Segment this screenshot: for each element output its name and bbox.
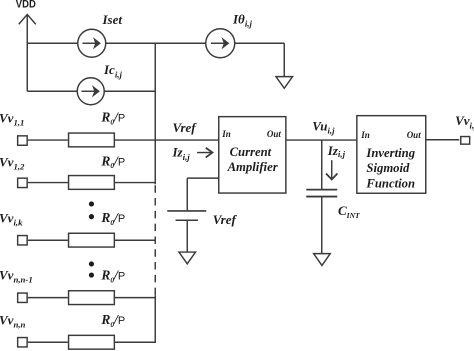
wire row1 left [28, 139, 68, 141]
svg-text:Out: Out [267, 129, 282, 139]
wire second rail y=91 [27, 90, 156, 92]
wire row2 left [28, 182, 68, 184]
VDD power symbol arrow [19, 14, 36, 91]
wire sigmoid output [426, 139, 460, 141]
vertical bus solid lower [154, 295, 156, 343]
wire row2 right [115, 182, 156, 184]
svg-text:Vref: Vref [173, 120, 198, 135]
input terminal square row4 [18, 293, 28, 302]
Iz annotation arrow (left) [197, 148, 212, 158]
svg-text:VDD: VDD [16, 0, 36, 10]
battery Vref [167, 211, 206, 252]
output terminal square [461, 137, 470, 145]
vertical bus solid upper [154, 43, 156, 184]
svg-text:Function: Function [365, 177, 415, 191]
input terminal square row5 [18, 338, 28, 347]
wire row5 left [28, 341, 68, 343]
input terminal square row1 [18, 136, 28, 145]
input terminal square row2 [18, 178, 28, 187]
current source Ic [77, 78, 104, 105]
resistor R0/P row4 [69, 291, 115, 305]
wire row4 left [28, 297, 68, 299]
ellipsis dots between rows 3-4 [89, 261, 94, 277]
wire amplifier reference input [187, 178, 219, 210]
svg-text:In: In [360, 130, 370, 140]
ellipsis dots between rows 2-3 [89, 201, 94, 219]
ground (capacitor) [314, 254, 331, 266]
wire amplifier output [286, 139, 357, 141]
ground (top right) [276, 77, 293, 89]
wire row3 left [28, 239, 68, 241]
svg-text:Vref: Vref [213, 212, 238, 227]
wire top rail y=43 [27, 43, 284, 77]
svg-text:Current: Current [230, 145, 272, 159]
current source Iset [78, 29, 106, 57]
resistor R0/P row1 [69, 133, 115, 147]
op-amp box U1 Current Amplifier [219, 117, 286, 193]
svg-text:Inverting: Inverting [365, 146, 415, 160]
wire Vu node down [321, 140, 323, 189]
input terminal square row3 [18, 236, 28, 245]
svg-text:In: In [221, 129, 231, 139]
wire row4 right [115, 297, 156, 299]
capacitor C_INT [306, 190, 337, 254]
current source Itheta [206, 29, 235, 58]
wire row3 right [115, 239, 156, 241]
svg-text:Amplifier: Amplifier [227, 160, 279, 174]
Iz annotation arrow (down) [326, 160, 337, 179]
resistor R0/P row2 [69, 176, 115, 190]
wire row1 right to amplifier [115, 139, 219, 141]
resistor R0/P row3 [69, 233, 115, 247]
svg-text:Sigmoid: Sigmoid [366, 161, 410, 175]
box U2 Inverting Sigmoid Function [357, 116, 426, 194]
wire row5 right [115, 341, 156, 343]
svg-text:Iset: Iset [102, 12, 123, 27]
svg-text:Out: Out [407, 130, 422, 140]
vertical bus dashed middle [154, 185, 156, 295]
ground (battery) [179, 252, 196, 264]
resistor R0/P row5 [69, 335, 115, 349]
